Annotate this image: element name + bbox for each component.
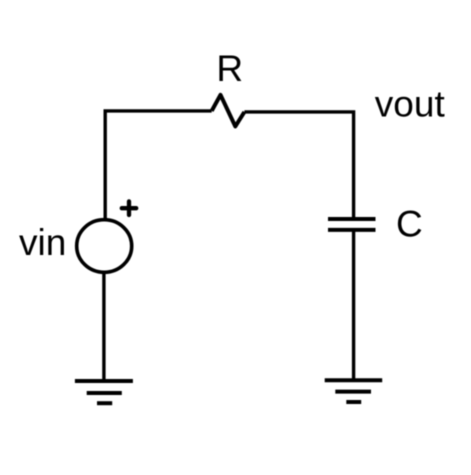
wire: resistor right lead across to vout corner and down to capacitor top plate [244,112,353,221]
wire: vin source bottom down to left ground [102,272,105,381]
resistor R (zigzag) [212,95,245,127]
svg-text:vin: vin [19,222,66,263]
capacitor C top plate [328,217,376,221]
svg-text:vout: vout [375,84,446,125]
svg-text:C: C [396,204,423,245]
wire: vin source top up and across to resistor left lead [105,111,212,221]
voltage source vin (circle) [77,220,132,273]
ground (right) [325,380,383,402]
svg-text:R: R [216,48,243,89]
capacitor C bottom plate [328,228,376,232]
wire: capacitor bottom plate down to right ground [352,228,355,380]
ground (left) [75,381,133,403]
polarity + of vin [122,201,136,215]
